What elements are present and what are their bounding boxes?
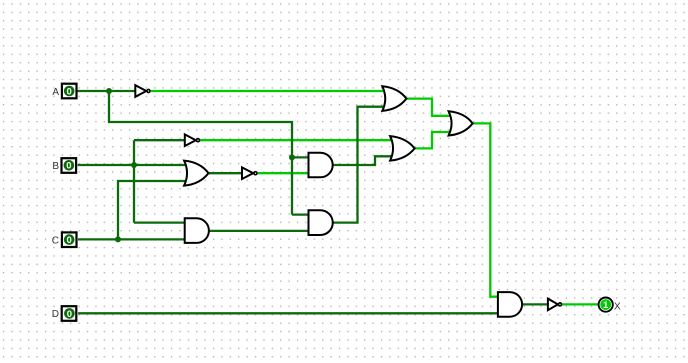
wire NOT2 output to OR U7 top input (high) xyxy=(200,139,394,141)
wire AND U5 output to OR U2 bottom input xyxy=(333,107,387,223)
svg-text:X: X xyxy=(614,302,621,313)
inverter NOT1 xyxy=(135,85,150,97)
inverter NOT4 xyxy=(548,299,562,311)
input pin C xyxy=(62,232,77,247)
or-gate U2 (top right) xyxy=(382,86,406,111)
input pin D xyxy=(62,306,77,321)
wire D pin to AND U8 bottom input xyxy=(78,312,498,314)
svg-text:B: B xyxy=(52,161,59,172)
node B junction xyxy=(131,162,137,168)
node A2 junction xyxy=(289,154,295,160)
wire OR U9 output to AND U8 top input (high) xyxy=(473,123,498,296)
wire B pin to OR U6 top input xyxy=(78,164,189,166)
and-gate U5 (lower middle) xyxy=(309,210,333,235)
wire NOT4 output to pin X (high) xyxy=(562,303,600,305)
wire B vertical branch xyxy=(133,140,135,222)
inverter NOT3 xyxy=(242,167,257,179)
wire A branch down and across xyxy=(109,91,292,215)
wire A to AND U5 top input xyxy=(292,213,309,215)
wire OR U6 output to NOT3 input xyxy=(209,172,243,174)
svg-text:A: A xyxy=(52,87,59,98)
wire OR U2 output to OR U9 top input (high) xyxy=(406,99,453,116)
output pin X xyxy=(599,298,613,312)
input pin A xyxy=(62,84,77,99)
and-gate U8 (output AND) xyxy=(498,292,522,317)
svg-text:0: 0 xyxy=(67,309,72,320)
svg-text:1: 1 xyxy=(603,300,609,311)
svg-text:D: D xyxy=(52,309,59,320)
and-gate U3 (B C) xyxy=(185,218,209,243)
wire C pin to AND U3 bottom input xyxy=(78,238,185,240)
and-gate U4 (upper middle) xyxy=(309,153,333,178)
svg-text:0: 0 xyxy=(66,161,71,172)
wire A to AND U4 top input xyxy=(292,156,309,158)
wire NOT1 output to OR U2 top input (high) xyxy=(151,90,387,92)
svg-text:0: 0 xyxy=(67,86,72,97)
wire AND U4 output to OR U7 bottom input xyxy=(333,156,394,165)
svg-text:0: 0 xyxy=(67,235,72,246)
node C junction xyxy=(115,236,121,242)
node A junction xyxy=(106,88,112,94)
or-gate U9 (final OR) xyxy=(449,111,473,135)
wire B to NOT2 input xyxy=(134,139,185,141)
svg-text:C: C xyxy=(52,235,59,246)
or-gate U7 (middle right) xyxy=(390,136,415,161)
wire AND U8 output to NOT4 input xyxy=(521,303,548,305)
wire B to AND U3 top input xyxy=(134,221,185,223)
wire C up branch to OR U6 bottom input xyxy=(118,181,189,239)
inverter NOT2 xyxy=(185,134,200,146)
wire OR U7 output to OR U9 bottom input (high) xyxy=(415,132,453,148)
wire AND U3 output to AND U5 bottom input xyxy=(209,230,308,232)
or-gate U6 (B + C) xyxy=(184,161,208,186)
wire NOT3 output to AND U4 bottom input (high) xyxy=(258,172,309,174)
wire A pin to NOT1 xyxy=(78,90,136,92)
input pin B xyxy=(62,158,77,173)
